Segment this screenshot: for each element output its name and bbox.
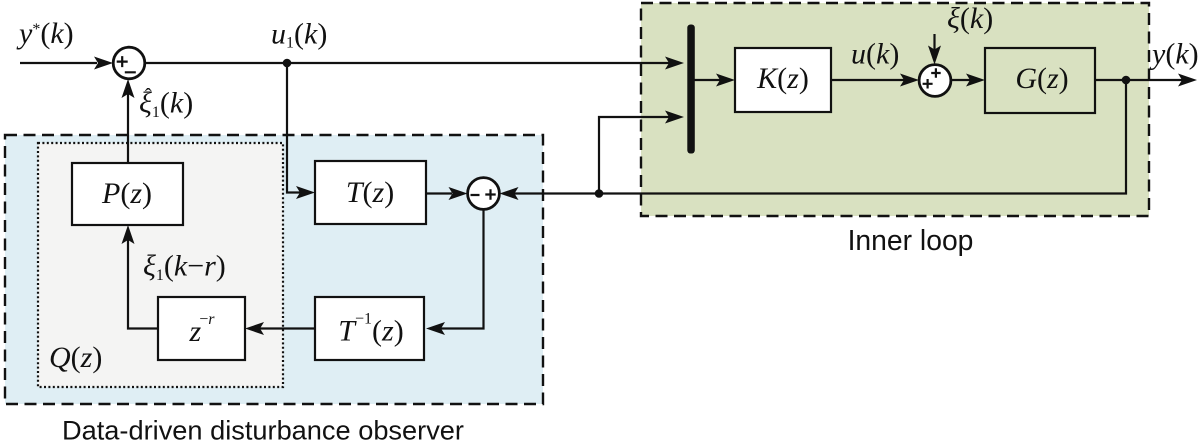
svg-text:y(k): y(k): [1149, 38, 1199, 71]
wire S1 to bar: [145, 62, 669, 64]
svg-text:y*(k): y*(k): [16, 17, 74, 50]
svg-text:u1(k): u1(k): [271, 18, 327, 52]
wire T(z) to S2: [426, 192, 452, 194]
Q(z) dotted box: [38, 143, 283, 387]
mux bar: [687, 25, 695, 154]
wire K(z) to S3: [831, 79, 904, 81]
wire u1 down into T(z): [287, 63, 300, 193]
T-1(z) box: [315, 297, 424, 360]
svg-text:Data-driven disturbance observ: Data-driven disturbance observer: [62, 415, 464, 444]
svg-text:T(z): T(z): [346, 176, 394, 209]
wire y* input: [20, 62, 97, 64]
wire S3 to G(z): [951, 79, 970, 81]
svg-text:u(k): u(k): [851, 38, 899, 71]
wire xi into S3: [933, 34, 935, 50]
svg-text:ˆ: ˆ: [145, 85, 152, 107]
svg-text:Q(z): Q(z): [49, 341, 102, 374]
inner loop dashed box: [641, 3, 1149, 216]
T(z) box: [315, 161, 426, 224]
wire P(z) to S1: [127, 94, 129, 163]
observer dashed box: [5, 135, 543, 404]
svg-text:ξ(k): ξ(k): [947, 2, 993, 35]
summing junction S2: [468, 178, 500, 210]
wire T-1 to z-r: [260, 327, 315, 329]
wire feedback into S2: [514, 80, 1126, 194]
node y(k): [1122, 76, 1131, 85]
wire node up into bar: [599, 117, 672, 194]
svg-text:K(z): K(z): [756, 62, 809, 95]
svg-text:ξ1(k−r): ξ1(k−r): [143, 250, 226, 284]
wire G(z) out: [1095, 79, 1182, 81]
svg-text:G(z): G(z): [1015, 62, 1068, 95]
svg-text:P(z): P(z): [101, 177, 152, 210]
K(z) box: [735, 48, 831, 112]
z-r box: [158, 297, 245, 360]
node u1: [283, 59, 292, 68]
summing junction S3: [919, 65, 951, 97]
G(z) box: [985, 48, 1095, 113]
node feedback: [595, 189, 604, 198]
wire bar to K(z): [695, 79, 721, 81]
summing junction S1: [113, 47, 145, 79]
wire z-r to P(z): [128, 240, 158, 329]
P(z) box: [72, 163, 183, 225]
svg-text:Inner loop: Inner loop: [848, 224, 974, 256]
wire S2 down to T-1: [441, 209, 484, 328]
